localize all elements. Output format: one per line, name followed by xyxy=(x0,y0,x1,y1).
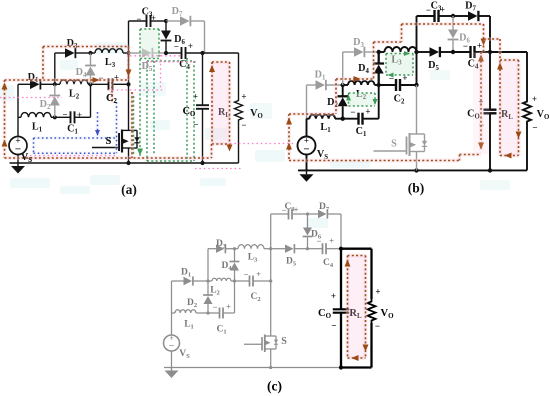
wire: switch drain riser (c) xyxy=(270,281,272,336)
inductor L1 (c) xyxy=(172,312,176,314)
node switch source on rail xyxy=(126,161,130,165)
red dashed loop (b): over L1 xyxy=(289,112,336,116)
diode D4 (b) xyxy=(378,52,380,64)
capacitor C4 (c) xyxy=(308,248,323,250)
node CO bottom junction (b) xyxy=(488,168,492,172)
wire: D7 output drop, grey xyxy=(204,21,206,53)
red dashed loop (b): riser left of D4 xyxy=(372,42,376,79)
wire: circuit (a) left rail (D1 node to L1 node) xyxy=(17,84,19,117)
inductor L1 (b) xyxy=(307,118,310,120)
node L1-D2 junction xyxy=(53,115,57,119)
node C3-D6-D7 junction (c) xyxy=(306,212,309,215)
node C2-switch junction xyxy=(126,82,130,86)
wire: C1 right riser (c) xyxy=(234,281,236,313)
node D1-L2-D3 junction (c) xyxy=(206,279,209,282)
MOSFET switch S (b), grey xyxy=(374,150,407,152)
ground symbol (b) xyxy=(306,171,308,174)
red dashed loop (a): riser through switch xyxy=(130,92,134,158)
diode D2 (b) xyxy=(342,85,344,96)
svg-text:+: + xyxy=(256,269,261,279)
blue dashed loop (a): VS-C1-S loop xyxy=(34,136,117,140)
green dashed loop (a): left edge down to rail xyxy=(139,29,141,157)
source VS (a) xyxy=(9,137,27,155)
wire: VS top lead (c) xyxy=(171,313,173,335)
red dashed loop (a): bottom edge xyxy=(5,156,212,160)
wire: switch drain riser xyxy=(128,84,130,130)
wire: circuit (c) left rail xyxy=(171,281,173,313)
wire: drain riser L3 row to C2 row (c) xyxy=(270,249,272,281)
node D1-L2-D3 junction (b) xyxy=(341,83,345,87)
svg-text:+: + xyxy=(331,291,336,301)
red dashed loop (b): jog to bottom edge xyxy=(460,153,482,157)
capacitor C2 (c) xyxy=(235,280,250,282)
node D5-D6-C4 junction (b) xyxy=(451,50,455,54)
svg-text:−: − xyxy=(463,41,468,51)
node C3-D6-D7 junction xyxy=(164,19,168,23)
wire: bottom rail (a) xyxy=(10,162,239,164)
svg-text:+: + xyxy=(532,94,537,104)
wire: VS bottom lead xyxy=(17,155,19,164)
ground symbol (c) xyxy=(171,368,173,371)
svg-text:−: − xyxy=(244,270,249,280)
wire: switch source to rail xyxy=(128,148,130,163)
wire: VS top lead (b) xyxy=(306,119,308,137)
wire: VS bottom lead (b) xyxy=(306,155,308,171)
wire: switch source to rail (c) xyxy=(270,349,272,368)
node D5-D6-C4 junction (c) xyxy=(306,247,309,250)
red dashed loop (b): riser left of D2 xyxy=(334,79,338,114)
inductor L1 (a) xyxy=(18,116,21,118)
svg-text:−: − xyxy=(317,236,322,246)
node L1-D2 junction (b) xyxy=(341,117,345,121)
wire: drain riser L3 row to C2 row (b) xyxy=(416,52,418,85)
diode D3 (a) xyxy=(55,52,65,54)
wire: circuit (b) left rail upper, grey xyxy=(306,85,308,119)
wire: D3 branch riser, grey (b) xyxy=(342,52,344,85)
wire: drain riser to C3 row (c) xyxy=(270,214,272,249)
svg-text:−: − xyxy=(303,143,309,155)
diode D2 (c) xyxy=(207,281,209,295)
wire: drain riser to C3 row xyxy=(128,21,130,53)
wire: output top rail (a) xyxy=(203,52,239,54)
pink dotted trace segments (a) xyxy=(0,97,62,99)
inductor L3 (c) xyxy=(238,245,264,249)
diode D1 (a) xyxy=(18,83,30,85)
red dashed loop (b): CO-RL loop xyxy=(500,60,519,156)
wire: D7 output drop (c) xyxy=(340,214,342,249)
green dashed loop (a): C3 box xyxy=(140,29,159,59)
diode D7 (c) xyxy=(308,213,319,215)
diode D3 (c) xyxy=(208,248,216,250)
red dashed loop (a): top edge above D1-L2 xyxy=(5,78,129,82)
source VS (b) xyxy=(298,137,316,155)
diode D4 (a), grey xyxy=(90,53,92,66)
capacitor C3 (a) xyxy=(129,20,147,22)
svg-text:+: + xyxy=(477,41,482,51)
capacitor CO (b) xyxy=(489,52,491,110)
svg-text:−: − xyxy=(375,321,380,331)
node C2-switch junction (c) xyxy=(269,279,272,282)
capacitor C1 (a) xyxy=(55,116,71,118)
red dashed loop (b): top edge over C3-D7 xyxy=(402,22,484,26)
diode D1 (c) xyxy=(172,280,184,282)
node D3-L3-D4 junction (b) xyxy=(377,50,381,54)
MOSFET switch S (a) xyxy=(92,147,119,149)
svg-text:−: − xyxy=(174,42,179,52)
red dashed loop (b): bottom edge xyxy=(289,159,460,163)
node L3-D5-switch junction xyxy=(126,51,130,55)
svg-text:+: + xyxy=(226,302,231,312)
green dashed loop (b): L3 freewheel box xyxy=(386,54,413,76)
svg-text:+: + xyxy=(77,110,82,120)
diode D5 (a), grey xyxy=(129,52,143,54)
output cell black rectangle (c): right edge with RL xyxy=(370,249,372,299)
svg-text:(b): (b) xyxy=(408,181,425,196)
diode D6 (a) xyxy=(165,21,167,31)
svg-text:−: − xyxy=(213,302,218,312)
capacitor C4 (a) xyxy=(166,52,182,54)
capacitor C3 (c) xyxy=(271,213,289,215)
inductor L3 (a) xyxy=(95,49,123,53)
svg-text:−: − xyxy=(193,120,198,130)
svg-text:S: S xyxy=(281,336,287,347)
diode D5 (c) xyxy=(271,248,285,250)
output cell black rectangle (c): top rail xyxy=(341,248,372,250)
inductor L2 (a) xyxy=(60,80,88,84)
svg-text:−: − xyxy=(532,123,537,133)
source VS (c) xyxy=(164,335,180,351)
red dashed loop (c): CO-RL loop xyxy=(348,256,366,359)
svg-text:(c): (c) xyxy=(267,379,282,394)
wire: D3 branch riser xyxy=(54,53,56,84)
diode D3 (b), grey xyxy=(343,51,354,53)
svg-text:(a): (a) xyxy=(121,182,137,197)
inductor L2 (c) xyxy=(208,280,212,282)
inductor L3 (b) xyxy=(385,47,417,52)
diode D2 (a), grey xyxy=(54,84,56,95)
MOSFET switch S (c) xyxy=(244,343,262,345)
node CO bottom junction xyxy=(200,161,204,165)
svg-text:−: − xyxy=(331,321,336,331)
node D1-L2-D3 junction xyxy=(53,82,57,86)
node L1-D2 junction (c) xyxy=(206,311,209,314)
node CO bottom junction (c) xyxy=(339,365,343,369)
svg-text:+: + xyxy=(329,236,334,246)
inductor L2 (b) xyxy=(343,84,348,86)
wire: bottom rail (b) xyxy=(298,169,527,171)
red dashed loop (a): D3-L3 box xyxy=(43,45,129,49)
svg-text:+: + xyxy=(241,92,246,102)
node L2-C2-D4 junction (b) xyxy=(377,83,381,87)
red dashed loop (b): drop to C4 node xyxy=(482,24,486,52)
capacitor C1 (c) xyxy=(208,312,220,314)
capacitor CO (c) on black left edge xyxy=(340,249,342,310)
wire: drain riser L3 row to C2 row xyxy=(128,53,130,84)
capacitor C1 (b) xyxy=(343,118,359,120)
node C4-CO output junction (c) xyxy=(339,247,343,251)
svg-text:+: + xyxy=(365,107,370,117)
wire: VS bottom lead (c) xyxy=(171,351,173,368)
svg-text:−: − xyxy=(169,341,175,352)
node L2-C2-D4 junction xyxy=(88,82,92,86)
red dashed loop (b): drop left of CO xyxy=(479,52,483,150)
wire: bottom rail (c) xyxy=(164,367,341,369)
diode D6 (c) xyxy=(307,214,309,228)
diode D4 (c) xyxy=(234,249,236,262)
capacitor C2 (a) xyxy=(91,83,109,85)
diode D5 (b) xyxy=(417,51,430,53)
node L3-D5-switch junction (c) xyxy=(269,247,272,250)
capacitor C3 (b) xyxy=(417,15,435,17)
diode D1 (b), grey xyxy=(307,84,316,86)
node D3-L3-D4 junction (c) xyxy=(233,247,236,250)
node D5-D6-C4 junction xyxy=(164,51,168,55)
red dashed loop (b): over L3 xyxy=(374,40,402,44)
diode D6 (b), grey xyxy=(452,16,454,30)
output cell black rectangle (c): bottom edge xyxy=(341,366,372,368)
svg-text:−: − xyxy=(350,107,355,117)
red dashed loop (b): over L2 xyxy=(336,77,374,81)
diode D7 (a), grey xyxy=(166,20,180,22)
node L2-C2-D4 junction (c) xyxy=(233,279,236,282)
capacitor C2 (b) xyxy=(379,84,396,86)
wire: C1 right to L2 node xyxy=(90,84,92,117)
diode D7 (b) xyxy=(453,15,468,17)
svg-text:+: + xyxy=(375,287,380,297)
ground symbol (a) xyxy=(17,163,19,166)
capacitor CO (a) xyxy=(202,53,204,105)
node C2-switch junction (b) xyxy=(414,83,418,87)
wire: switch source to rail, grey (b) xyxy=(416,152,418,171)
red dashed loop (a): CO-RL loop xyxy=(212,62,230,144)
red dashed loop (a): left edge xyxy=(3,80,7,158)
wire: VS top lead xyxy=(17,117,19,136)
wire: drain riser to C3 row (b) xyxy=(416,16,418,52)
node D3-L3-D4 junction xyxy=(88,51,92,55)
svg-text:S: S xyxy=(106,136,112,147)
wire: output top rail (b) xyxy=(490,51,527,53)
wire: D7 output drop (b) xyxy=(489,16,491,52)
red dashed loop (b): left edge xyxy=(287,114,291,161)
green dashed loop (a): D5-C4-CO box xyxy=(147,60,194,62)
resistor RL (b) xyxy=(526,52,528,99)
green dashed loop (b): L2 freewheel box xyxy=(349,93,376,106)
wire: switch drain riser, grey (b) xyxy=(416,85,418,134)
node L3-D5-switch junction (b) xyxy=(414,50,418,54)
green dashed loop (a): inner verticals xyxy=(153,61,155,155)
node C3-D6-D7 junction (b) xyxy=(451,14,455,18)
svg-text:−: − xyxy=(62,110,67,120)
resistor RL (a) xyxy=(238,53,240,98)
red dashed loop (b): riser to C3 row xyxy=(400,24,404,42)
node switch source on rail (c) xyxy=(269,366,272,369)
svg-text:−: − xyxy=(241,120,246,130)
capacitor C4 (b) xyxy=(453,51,471,53)
red dashed loop (a): riser near C1 xyxy=(110,82,114,103)
node C4-CO output junction xyxy=(200,51,204,55)
faint compression-artifact tint blobs xyxy=(0,42,510,228)
svg-text:+: + xyxy=(188,41,193,51)
node C4-CO output junction (b) xyxy=(488,50,492,54)
wire: D3 branch riser (c) xyxy=(207,249,209,281)
node switch source on rail (b) xyxy=(414,168,418,172)
wire: C1 right riser (b) xyxy=(378,85,380,119)
svg-text:S: S xyxy=(391,138,397,149)
